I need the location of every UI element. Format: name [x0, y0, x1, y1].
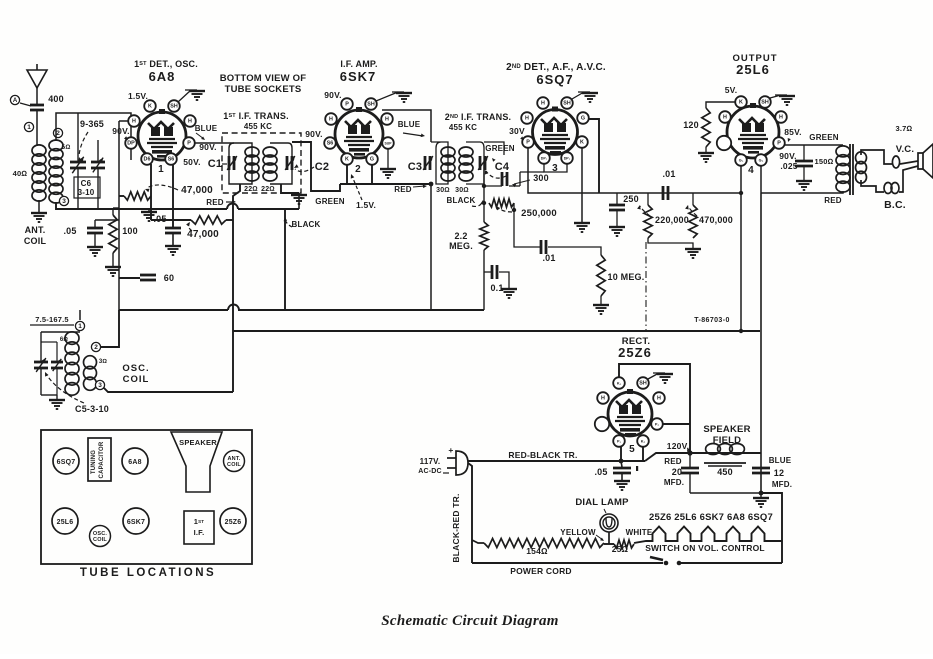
- svg-text:25Z6: 25Z6: [225, 519, 242, 526]
- tube location 6SQ7: [53, 448, 79, 474]
- svg-text:CAPACITOR: CAPACITOR: [99, 441, 105, 478]
- svg-text:H: H: [601, 396, 605, 402]
- antenna coil primary 40ohm: [32, 145, 46, 156]
- svg-text:22Ω: 22Ω: [261, 186, 275, 193]
- svg-text:6SQ7: 6SQ7: [536, 72, 573, 87]
- ground C5: [41, 394, 57, 396]
- pin DP 6A8: [125, 137, 137, 149]
- svg-text:SWITCH ON VOL. CONTROL: SWITCH ON VOL. CONTROL: [645, 543, 765, 553]
- svg-text:H: H: [657, 396, 661, 402]
- svg-text:H: H: [525, 116, 529, 122]
- svg-text:470,000: 470,000: [699, 215, 733, 225]
- svg-text:5Ω: 5Ω: [61, 144, 70, 151]
- pin SH 25L6: [759, 96, 771, 108]
- svg-text:60: 60: [164, 273, 174, 283]
- resistor 120 and wire: [706, 102, 736, 108]
- svg-text:S6: S6: [327, 141, 334, 147]
- svg-text:C6: C6: [81, 179, 92, 188]
- capacitor 400: [30, 104, 44, 107]
- wire 6SK7 plate: [382, 110, 431, 142]
- capacitor .01 coupling: [540, 240, 543, 254]
- tube location 25L6: [52, 508, 78, 534]
- svg-text:50V.: 50V.: [183, 157, 201, 167]
- wire G2 down: [760, 165, 762, 193]
- wire B+ vertical main: [760, 193, 762, 493]
- capacitor 0.1: [484, 271, 492, 273]
- wire node3 to bus: [104, 388, 233, 392]
- pin blank 25L6: [717, 136, 731, 150]
- dashed leader 47000: [147, 185, 178, 190]
- svg-text:POWER CORD: POWER CORD: [510, 566, 572, 576]
- svg-text:B.C.: B.C.: [884, 199, 906, 211]
- wire antenna to coil: [36, 110, 38, 146]
- svg-text:220,000: 220,000: [655, 215, 689, 225]
- svg-text:400: 400: [48, 94, 64, 104]
- ground .05: [87, 246, 103, 248]
- svg-text:S6: S6: [168, 157, 175, 163]
- dashed leader 9-365: [79, 132, 88, 156]
- wire bus y331: [233, 330, 760, 332]
- svg-text:COIL: COIL: [93, 537, 107, 543]
- pin K1 25Z6: [613, 377, 625, 389]
- svg-text:BLUE: BLUE: [398, 120, 421, 129]
- dashed leader BLACK: [472, 201, 483, 206]
- svg-text:COIL: COIL: [123, 374, 150, 385]
- pin SH 6SK7: [365, 98, 377, 110]
- pin H 6SK7 right: [381, 113, 393, 125]
- svg-text:H: H: [779, 115, 783, 121]
- pin P 6SK7: [341, 98, 353, 110]
- svg-text:85V.: 85V.: [784, 127, 802, 137]
- svg-text:5V.: 5V.: [725, 85, 738, 95]
- wire primary bottom return: [761, 191, 843, 193]
- resistor 100: [112, 208, 114, 215]
- tube location 25Z6: [220, 508, 246, 534]
- pin K 6SK7: [341, 153, 353, 165]
- svg-text:C3: C3: [408, 161, 422, 173]
- ground 100: [112, 253, 114, 266]
- svg-text:.05: .05: [153, 214, 166, 224]
- wire 6SQ7 grid: [588, 119, 599, 193]
- pin H 25Z6 right: [653, 392, 665, 404]
- svg-text:30Ω: 30Ω: [436, 187, 450, 194]
- svg-text:P: P: [777, 141, 781, 147]
- antenna: [27, 70, 47, 88]
- svg-text:AC-DC: AC-DC: [418, 468, 442, 475]
- ground 25Z6 shield: [648, 373, 659, 379]
- wire hop bus: [228, 305, 239, 310]
- wire line top RED-BLACK TR: [468, 460, 645, 462]
- svg-text:300: 300: [533, 173, 549, 183]
- pin P 6A8: [183, 137, 195, 149]
- node 1 circle: [24, 122, 33, 131]
- pin blank 25Z6: [595, 417, 609, 431]
- svg-text:RED: RED: [394, 185, 412, 194]
- ground 6SQ7 shield: [572, 92, 584, 99]
- svg-text:120V.: 120V.: [667, 441, 689, 451]
- wire line bottom BLACK-RED TR: [468, 463, 472, 563]
- svg-text:+: +: [448, 445, 453, 455]
- tube location 6A8: [122, 448, 148, 474]
- capacitor C4: [479, 156, 482, 170]
- wire DP bar: [544, 163, 567, 172]
- svg-text:BLUE: BLUE: [769, 456, 792, 465]
- svg-text:1: 1: [27, 124, 31, 131]
- pin G 6SK7: [366, 153, 378, 165]
- dashed leader C4: [486, 171, 506, 178]
- svg-text:6SQ7: 6SQ7: [57, 459, 76, 466]
- svg-text:K: K: [345, 157, 349, 163]
- wire 250k to .01: [514, 203, 541, 247]
- svg-text:22Ω: 22Ω: [244, 186, 258, 193]
- ground 6A8 shield: [178, 90, 191, 102]
- IF1 primary loop: [229, 143, 252, 184]
- pin P1 25Z6: [613, 435, 625, 447]
- resistor 154 ohm ballast: [472, 540, 484, 543]
- svg-text:250: 250: [623, 194, 639, 204]
- trimmer C5b: [56, 342, 58, 361]
- wire 6A8 DG down: [150, 164, 152, 220]
- resistor 470000: [692, 193, 694, 205]
- svg-text:G₂: G₂: [759, 159, 764, 163]
- svg-text:250,000: 250,000: [521, 208, 557, 219]
- resistor 47000 osc grid: [124, 192, 151, 200]
- svg-text:V.C.: V.C.: [896, 144, 914, 155]
- svg-text:P₂: P₂: [655, 423, 660, 427]
- wire AVC vertical: [483, 163, 485, 222]
- svg-text:WHITE: WHITE: [626, 528, 653, 537]
- svg-text:C5-3-10: C5-3-10: [75, 404, 109, 414]
- resistor 250000: [489, 199, 514, 207]
- voice coil loop: [892, 156, 899, 168]
- capacitor 250: [616, 193, 618, 205]
- speaker block: [171, 432, 222, 492]
- node 2 osc: [91, 342, 100, 351]
- pin K 6A8: [144, 100, 156, 112]
- svg-text:GREEN: GREEN: [485, 144, 514, 153]
- stray tick: [636, 466, 638, 471]
- ground 25L6 shield: [770, 95, 781, 98]
- wire IF2 plate line down: [430, 184, 432, 310]
- svg-text:BLACK: BLACK: [292, 220, 321, 229]
- svg-text:RED: RED: [206, 198, 224, 207]
- svg-text:455 KC: 455 KC: [449, 123, 477, 132]
- capacitor C3: [424, 156, 427, 170]
- tube location 6SK7: [123, 508, 149, 534]
- dashed leader C5: [46, 374, 84, 403]
- svg-text:YELLOW: YELLOW: [560, 528, 596, 537]
- svg-text:H: H: [188, 119, 192, 125]
- svg-text:1.5V.: 1.5V.: [128, 91, 148, 101]
- wire 470k ground: [648, 238, 693, 248]
- node 3 circle: [59, 196, 68, 205]
- IF2 secondary loop: [466, 142, 484, 184]
- svg-text:BLACK-RED TR.: BLACK-RED TR.: [451, 493, 461, 562]
- svg-text:MEG.: MEG.: [449, 241, 473, 251]
- pin H 6SK7 left: [325, 113, 337, 125]
- pin SH 6SQ7: [561, 97, 573, 109]
- capacitor 60: [119, 277, 140, 279]
- wire bottom B-: [690, 492, 761, 494]
- svg-text:150Ω: 150Ω: [814, 157, 833, 166]
- antenna coil secondary 5ohm: [49, 140, 63, 151]
- wire power cord bottom: [472, 562, 663, 564]
- pin G1 25L6: [735, 154, 747, 166]
- svg-text:SH: SH: [761, 100, 769, 106]
- tuning capacitor block: [88, 438, 111, 481]
- resistor 10 MEG: [597, 255, 605, 296]
- svg-text:A: A: [13, 98, 18, 104]
- wire 6SK7 sup: [387, 148, 389, 168]
- wire IF1 primary bottom RED lead: [233, 184, 240, 392]
- pin G 6SQ7: [577, 112, 589, 124]
- wire B- to heater right: [761, 493, 782, 563]
- ground .05 osc: [165, 245, 181, 247]
- svg-text:C2: C2: [315, 161, 329, 173]
- wire left bus: [118, 121, 120, 310]
- pin G2 25L6: [755, 154, 767, 166]
- wire AVC to bus: [483, 250, 485, 310]
- svg-text:2: 2: [94, 344, 98, 351]
- svg-text:RED: RED: [824, 196, 842, 205]
- IF1 secondary loop: [270, 143, 292, 184]
- ground 6SK7 shield: [376, 92, 398, 101]
- osc coil winding 6 ohm: [65, 332, 79, 345]
- svg-text:6Ω: 6Ω: [60, 337, 69, 343]
- svg-text:2.2: 2.2: [454, 231, 467, 241]
- svg-text:GREEN: GREEN: [809, 133, 838, 142]
- tuning capacitor 9-365: [77, 113, 79, 161]
- svg-text:.01: .01: [542, 253, 555, 263]
- wire 6SQ7 K ground: [581, 147, 583, 222]
- pin P2 25Z6: [651, 418, 663, 430]
- svg-text:SPEAKER: SPEAKER: [703, 424, 750, 435]
- svg-text:9-365: 9-365: [80, 119, 104, 129]
- wire P2 lead: [662, 423, 690, 425]
- svg-text:12: 12: [774, 468, 784, 478]
- pin H 25Z6 left: [597, 392, 609, 404]
- svg-text:.05: .05: [594, 467, 607, 477]
- svg-text:1: 1: [78, 323, 82, 330]
- pin SUP 6SK7: [382, 137, 394, 149]
- wire black riser IF1: [284, 209, 286, 310]
- wire IF1 secondary bottom ground: [281, 184, 299, 193]
- wire hop ground bus: [227, 204, 238, 210]
- svg-text:H: H: [329, 117, 333, 123]
- svg-text:TUBE LOCATIONS: TUBE LOCATIONS: [80, 567, 216, 579]
- wire secondary top to grid line: [56, 113, 131, 160]
- wire 25Z6 K1 loop to output: [619, 364, 690, 453]
- IF1 primary coil: [245, 147, 259, 157]
- svg-text:6SK7: 6SK7: [340, 69, 377, 84]
- svg-text:Schematic Circuit Diagram: Schematic Circuit Diagram: [381, 613, 559, 629]
- IF2 primary coil: [441, 147, 455, 157]
- svg-text:MFD.: MFD.: [772, 480, 792, 489]
- resistor 47000 lower: [151, 219, 191, 221]
- svg-text:2: 2: [355, 164, 361, 175]
- wire node2: [101, 310, 119, 347]
- capacitor 300: [483, 185, 502, 187]
- svg-text:40Ω: 40Ω: [13, 169, 28, 178]
- tube locations box: [41, 430, 252, 564]
- svg-text:SUP: SUP: [385, 142, 393, 146]
- svg-text:100: 100: [122, 226, 138, 236]
- resistor 25 ohm: [614, 540, 634, 548]
- wire P1 down: [620, 446, 622, 461]
- svg-text:COIL: COIL: [24, 236, 47, 246]
- wire 6SQ7 plate to audio: [528, 147, 741, 193]
- wire tuning caps to ground bus: [77, 168, 79, 209]
- svg-text:BLUE: BLUE: [195, 124, 218, 133]
- svg-text:BOTTOM VIEW OF: BOTTOM VIEW OF: [220, 73, 307, 84]
- svg-text:MFD.: MFD.: [664, 478, 684, 487]
- svg-text:2: 2: [56, 130, 60, 137]
- svg-text:COIL: COIL: [227, 462, 241, 468]
- wire IF2 secondary top to 6SQ7: [484, 142, 504, 155]
- svg-text:1: 1: [158, 164, 164, 175]
- wire 6SK7 cathode: [346, 164, 348, 184]
- svg-text:K₁: K₁: [617, 382, 622, 386]
- node 3 osc: [95, 380, 104, 389]
- svg-text:3.7Ω: 3.7Ω: [896, 124, 913, 133]
- node 2 circle: [53, 128, 62, 137]
- svg-text:P: P: [526, 140, 530, 146]
- svg-text:FIELD: FIELD: [713, 435, 741, 446]
- switch on volume control: [664, 561, 669, 566]
- pin SG 6SK7: [324, 137, 336, 149]
- svg-text:K: K: [580, 140, 584, 146]
- tube location ANT COIL: [224, 451, 245, 472]
- IF2 primary loop: [431, 142, 448, 184]
- svg-text:H: H: [723, 115, 727, 121]
- svg-text:450: 450: [717, 467, 733, 477]
- svg-text:3-10: 3-10: [78, 188, 95, 197]
- pin SG 6A8: [165, 153, 177, 165]
- svg-text:6A8: 6A8: [149, 69, 176, 84]
- svg-text:10 MEG.: 10 MEG.: [608, 272, 645, 282]
- wire G1 down: [740, 165, 742, 331]
- svg-text:H: H: [541, 101, 545, 107]
- svg-text:6A8: 6A8: [128, 459, 141, 466]
- pin DG 6A8: [141, 153, 153, 165]
- svg-text:20: 20: [672, 467, 682, 477]
- svg-text:1.5V.: 1.5V.: [356, 200, 376, 210]
- svg-text:DP: DP: [127, 141, 135, 147]
- pin K2 25Z6: [637, 435, 649, 447]
- svg-text:SH: SH: [367, 102, 375, 108]
- svg-text:H: H: [385, 117, 389, 123]
- svg-text:30Ω: 30Ω: [455, 187, 469, 194]
- transformer core: [849, 144, 851, 195]
- svg-text:C1: C1: [208, 158, 222, 170]
- capacitor C2: [286, 156, 289, 170]
- svg-text:ANT.: ANT.: [25, 225, 46, 235]
- svg-text:G: G: [370, 157, 374, 163]
- ground B-: [759, 491, 764, 496]
- node 1 osc: [75, 321, 84, 330]
- output transformer primary 150ohm: [836, 146, 850, 157]
- capacitor .01 audio coupling: [662, 186, 665, 200]
- oscillator section wires: [79, 310, 81, 320]
- speaker field coil 450: [706, 444, 721, 455]
- svg-text:SH: SH: [563, 101, 571, 107]
- svg-text:SPEAKER: SPEAKER: [179, 438, 217, 447]
- svg-text:RED: RED: [664, 457, 682, 466]
- pin H 25L6 right: [775, 111, 787, 123]
- wire IF1 secondary top to 6SK7 screen: [292, 142, 340, 191]
- tube location OSC COIL: [90, 526, 111, 547]
- pin P 25L6: [773, 137, 785, 149]
- volume control 220000: [647, 193, 649, 205]
- svg-text:P₁: P₁: [617, 440, 622, 444]
- svg-text:455 KC: 455 KC: [244, 122, 272, 131]
- pin H 6SQ7 top: [537, 97, 549, 109]
- svg-text:117V.: 117V.: [420, 457, 441, 466]
- dashed leader C2: [295, 167, 314, 172]
- svg-text:5: 5: [629, 444, 635, 455]
- svg-text:25L6: 25L6: [736, 62, 770, 77]
- svg-text:DP₂: DP₂: [564, 157, 571, 161]
- svg-text:P: P: [187, 141, 191, 147]
- svg-text:47,000: 47,000: [181, 185, 213, 196]
- svg-text:G₁: G₁: [739, 159, 744, 163]
- resistor 2.2 MEG: [480, 222, 488, 250]
- node A circle: [10, 95, 19, 104]
- pin H 6A8 right: [184, 115, 196, 127]
- svg-text:7.5-167.5: 7.5-167.5: [35, 315, 69, 324]
- svg-text:G: G: [581, 116, 585, 122]
- svg-text:BLACK: BLACK: [447, 196, 476, 205]
- IF1 secondary coil: [263, 147, 277, 157]
- capacitor 20 MFD: [689, 453, 691, 467]
- svg-text:.05: .05: [63, 226, 76, 236]
- svg-text:T-86703-0: T-86703-0: [694, 317, 730, 324]
- svg-text:3: 3: [62, 198, 66, 205]
- svg-text:90V.: 90V.: [305, 129, 323, 139]
- capacitor C1: [228, 156, 231, 170]
- wire VC top: [861, 150, 892, 164]
- svg-text:D6: D6: [144, 157, 151, 163]
- svg-text:25Z6: 25Z6: [618, 345, 652, 360]
- pin DP2 6SQ7: [561, 152, 573, 164]
- dash-dot volume linkage: [645, 242, 647, 330]
- junction dot IF2 primary: [429, 182, 434, 187]
- wire 25L6 plate: [784, 144, 843, 146]
- 1st IF block: [184, 511, 214, 544]
- svg-text:TUBE SOCKETS: TUBE SOCKETS: [225, 84, 302, 95]
- heater string humps: [634, 527, 782, 544]
- svg-text:25L6: 25L6: [57, 519, 74, 526]
- wire line ramp to 120V node: [645, 453, 761, 461]
- svg-text:SH: SH: [170, 104, 178, 110]
- capacitor .025: [803, 145, 805, 160]
- svg-text:90V.: 90V.: [112, 126, 130, 136]
- svg-text:DIAL LAMP: DIAL LAMP: [575, 497, 629, 508]
- svg-text:K: K: [739, 100, 743, 106]
- ground tuning: [148, 209, 150, 211]
- svg-text:K: K: [148, 104, 152, 110]
- svg-text:120: 120: [683, 120, 699, 130]
- wire K2 down: [642, 446, 644, 460]
- svg-text:.025: .025: [780, 161, 797, 171]
- svg-text:6SK7: 6SK7: [127, 519, 145, 526]
- wire 6A8 plate to IF1: [194, 142, 234, 144]
- osc coil winding 3 ohm: [84, 356, 97, 369]
- svg-text:K₂: K₂: [641, 440, 646, 444]
- svg-text:SH: SH: [639, 381, 647, 387]
- svg-text:3: 3: [98, 382, 102, 389]
- pin K 6SQ7: [576, 136, 588, 148]
